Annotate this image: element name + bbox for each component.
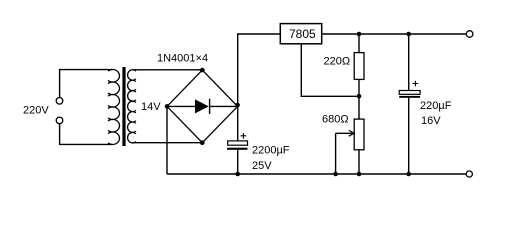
svg-text:7805: 7805 <box>289 27 316 41</box>
junction dot: C1 at ground rail <box>235 172 240 177</box>
wire: top rail down to C2 <box>408 34 410 91</box>
AC input terminal lower <box>56 117 63 124</box>
junction dot: bridge left vertex <box>165 104 170 109</box>
potentiometer RP1 wiper arrow <box>336 132 353 134</box>
wire: C2 to ground rail <box>408 98 410 174</box>
transformer T1 primary winding <box>108 69 119 144</box>
wire: top rail to R1 <box>358 34 360 53</box>
junction dot: R1 / RP1 / 7805 gnd node <box>357 94 362 99</box>
diode symbol inside bridge: triangle <box>195 99 209 113</box>
svg-text:680Ω: 680Ω <box>322 114 349 126</box>
wire: 7805 ground pin down and right <box>301 44 359 97</box>
wire: RP1 bottom to ground rail <box>358 150 360 174</box>
junction dot: bridge right vertex <box>235 103 240 108</box>
wire: junction to RP1 top <box>358 96 360 119</box>
junction dot: bridge bottom vertex <box>200 140 205 145</box>
capacitor C1 negative plate <box>227 148 248 150</box>
wire: lower input terminal down and right to primary bottom <box>60 124 112 145</box>
transformer T1 core <box>122 67 125 146</box>
junction dot: top rail at R1 <box>357 32 362 37</box>
wire: secondary bottom to bridge bottom vertex <box>133 142 202 144</box>
svg-text:1N4001×4: 1N4001×4 <box>157 53 208 65</box>
diode symbol inside bridge: anode lead <box>167 105 195 107</box>
wire: bridge right vertex down to C1 <box>237 106 239 141</box>
AC input terminal upper <box>56 98 63 105</box>
wire: upper input terminal up and right to primary top <box>60 70 113 98</box>
wire: C1 to ground rail <box>237 150 239 174</box>
junction dot: C2 at ground rail <box>406 172 411 177</box>
bridge rectifier D1-D4 diamond <box>167 70 238 143</box>
DC output terminal positive <box>466 31 473 38</box>
svg-text:25V: 25V <box>252 160 272 172</box>
transformer T1 secondary winding <box>128 70 136 143</box>
diode symbol inside bridge: cathode lead <box>210 105 238 107</box>
resistor R1 220 ohm body <box>354 53 364 80</box>
junction dot: RP1 at ground rail <box>357 172 362 177</box>
svg-text:16V: 16V <box>421 115 441 127</box>
junction dot: top rail at C2 <box>406 32 411 37</box>
wire: R1 bottom to junction <box>358 79 360 96</box>
svg-text:220µF: 220µF <box>420 100 452 112</box>
capacitor C2 positive plate <box>399 91 420 95</box>
svg-text:220Ω: 220Ω <box>324 56 351 68</box>
capacitor C2 plus mark <box>413 81 419 87</box>
svg-text:2200µF: 2200µF <box>252 144 290 156</box>
svg-text:14V: 14V <box>141 101 161 113</box>
wire: 7805 output to + output terminal <box>322 33 467 35</box>
capacitor C2 negative plate <box>399 96 420 98</box>
wire: wiper down to ground rail <box>335 133 337 174</box>
junction dot: bridge top vertex <box>200 68 205 73</box>
wire: bridge left vertex down to ground rail <box>166 106 168 174</box>
wire: bridge right vertex up to 7805 input <box>238 34 281 106</box>
capacitor C1 positive plate <box>228 141 248 145</box>
capacitor C1 plus mark <box>241 133 247 139</box>
DC output terminal negative <box>466 171 472 177</box>
wire: ground rail (bottom) <box>167 173 466 175</box>
regulator U1 7805 box <box>280 24 321 44</box>
potentiometer RP1 680 ohm body <box>354 119 364 150</box>
diode symbol inside bridge: cathode bar <box>209 99 211 114</box>
junction dot: wiper at ground rail <box>333 172 338 177</box>
svg-text:220V: 220V <box>23 105 49 117</box>
wire: secondary top to bridge top vertex <box>133 69 202 71</box>
